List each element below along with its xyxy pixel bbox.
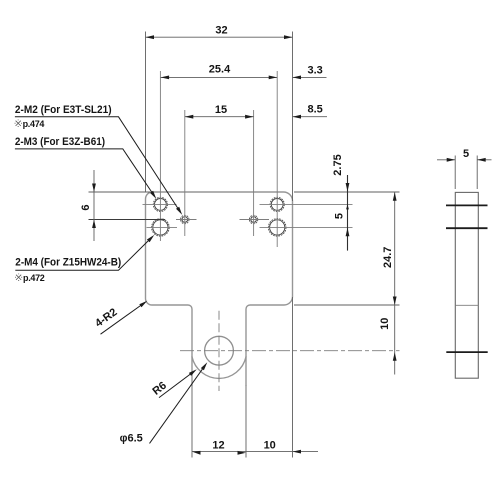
centerline vertical of phi6.5 hole <box>218 311 220 391</box>
hole M2 left <box>182 217 188 223</box>
dim 12 arrows <box>192 451 201 455</box>
svg-text:2-M4 (For Z15HW24-B): 2-M4 (For Z15HW24-B) <box>15 257 121 269</box>
dim 5 arrow <box>346 228 350 237</box>
centerline col M3 left <box>159 71 161 241</box>
R6 slot arc <box>192 357 246 379</box>
extension row M2 left for dim 6 <box>89 219 166 221</box>
side view dim 5 arrows <box>447 158 456 162</box>
side view hole row M3 <box>446 204 488 206</box>
bracket front-view outline <box>146 192 293 357</box>
side view hole row phi6.5 <box>446 351 487 353</box>
svg-text:5: 5 <box>334 213 346 219</box>
dim 6 line <box>93 170 95 241</box>
svg-text:24.7: 24.7 <box>382 247 394 268</box>
centerline horizontal of phi6.5 hole <box>180 350 400 352</box>
svg-text:φ6.5: φ6.5 <box>120 433 143 445</box>
svg-text:32: 32 <box>215 25 227 37</box>
hole M3 right <box>271 199 283 211</box>
extension bottom edge row right <box>294 304 400 306</box>
dim 24.7 arrows <box>393 192 397 201</box>
dim 5 small arrow <box>346 204 349 209</box>
dim 12/10 line <box>192 451 318 453</box>
svg-text:10: 10 <box>379 318 391 330</box>
centerline col M3 right <box>276 71 278 247</box>
svg-text:12: 12 <box>212 440 224 452</box>
dim 2.75/5 line <box>347 175 349 251</box>
dim 10 bottom arrow <box>293 450 302 454</box>
svg-text:p.474: p.474 <box>23 119 45 129</box>
dim 32 arrows <box>146 35 155 39</box>
side view dim 5 extension lines <box>454 156 456 190</box>
svg-text:2-M3 (For E3Z-B61): 2-M3 (For E3Z-B61) <box>15 136 105 148</box>
hole phi6.5 <box>205 336 234 365</box>
centerline row M2 left hole <box>176 219 197 221</box>
dim 32 line <box>146 36 293 38</box>
leader 2-M3 <box>15 149 155 197</box>
centerline row M4 left <box>147 226 178 228</box>
leader 2-M2 <box>15 117 181 213</box>
dim 3.3 arrow <box>293 76 302 80</box>
dim 10 arrow <box>393 352 397 361</box>
label 2-M2 ref p.474 <box>15 120 22 127</box>
dim 8.5 arrow <box>293 115 302 119</box>
svg-text:2-M2 (For E3T-SL21): 2-M2 (For E3T-SL21) <box>15 104 112 116</box>
label 2-M4 ref p.472 <box>15 274 22 281</box>
hole M4 left <box>153 220 168 235</box>
svg-text:3.3: 3.3 <box>308 65 323 77</box>
side view step line <box>455 304 478 306</box>
centerline col M2 left <box>184 110 186 236</box>
leader 4-R2 <box>101 302 146 334</box>
extension right edge col <box>292 32 294 202</box>
centerline row M3 right to dim <box>260 203 353 205</box>
extension left edge col <box>145 32 147 193</box>
dim 2.75 arrow <box>346 183 350 192</box>
leader R6 <box>159 371 195 398</box>
dim 3.3 line <box>293 76 327 78</box>
dim 25.4 arrows <box>161 76 170 80</box>
dim 6 arrows <box>92 184 96 193</box>
svg-text:10: 10 <box>264 440 276 452</box>
side view outline <box>455 192 478 378</box>
svg-text:5: 5 <box>463 148 469 160</box>
dim 8.5 line <box>293 116 328 118</box>
svg-text:25.4: 25.4 <box>209 64 231 76</box>
svg-text:15: 15 <box>215 104 227 116</box>
extension top edge row right <box>294 191 400 193</box>
hole M4 right <box>270 220 285 235</box>
hole M3 left <box>155 199 167 211</box>
svg-text:p.472: p.472 <box>23 273 45 283</box>
dim 24.7/10 line <box>394 192 396 375</box>
side view dim 5 line <box>437 159 455 161</box>
centerline row M2 right hole <box>240 219 270 221</box>
side view hole row M4 <box>446 227 488 229</box>
dim 25.4 line <box>161 76 278 78</box>
tab right edge <box>245 357 247 385</box>
dim 15 line <box>185 116 254 118</box>
svg-text:8.5: 8.5 <box>308 104 323 116</box>
extension top edge row left <box>89 191 151 193</box>
svg-text:2.75: 2.75 <box>332 154 344 175</box>
hole M2 right <box>251 217 257 223</box>
centerline row M3 left <box>143 203 177 205</box>
tab left edge <box>191 357 193 385</box>
extension right edge col lower <box>292 297 294 458</box>
dim 15 arrows <box>185 115 194 119</box>
svg-text:6: 6 <box>80 204 92 210</box>
centerline col M2 right <box>253 110 255 236</box>
centerline row M4 right to dim <box>260 226 353 228</box>
leader phi6.5 <box>150 365 206 443</box>
leader 2-M4 <box>15 237 152 270</box>
